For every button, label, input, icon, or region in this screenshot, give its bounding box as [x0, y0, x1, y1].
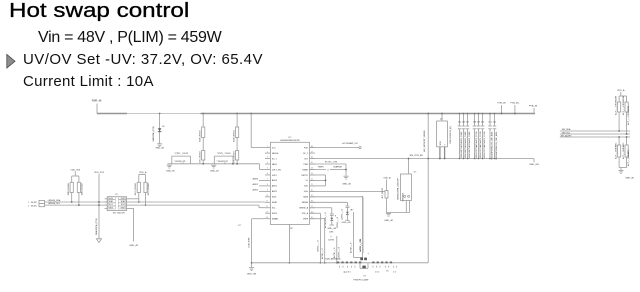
svg-text:C49: C49 [477, 122, 480, 124]
svg-text:1xTRX_+_S: 1xTRX_+_S [342, 208, 344, 220]
svg-text:SVDD: SVDD [272, 213, 278, 215]
svg-text:PVB_48: PVB_48 [497, 102, 506, 104]
svg-text:C51: C51 [488, 122, 491, 124]
svg-text:2: 2 [28, 206, 29, 208]
svg-text:UUD1H470MNL1GS_CAP_ALEL: UUD1H470MNL1GS_CAP_ALEL [490, 132, 493, 160]
svg-text:CWX: CWX [329, 231, 334, 233]
svg-text:GND_48: GND_48 [155, 147, 164, 149]
svg-text:7: 7 [267, 179, 268, 181]
svg-text:GRM31CR72A475KA73_C1206: GRM31CR72A475KA73_C1206 [475, 132, 478, 159]
svg-text:GND_48: GND_48 [129, 245, 138, 247]
svg-text:ADR2: ADR2 [272, 190, 277, 193]
svg-text:4K75_R0402: 4K75_R0402 [135, 182, 137, 195]
svg-text:+: + [367, 252, 369, 255]
svg-text:GND_GN: GND_GN [327, 228, 336, 230]
svg-text:SMBAY: SMBAY [272, 218, 279, 221]
svg-text:GND_48: GND_48 [342, 184, 351, 186]
svg-text:VAUX: VAUX [272, 163, 278, 166]
svg-text:48V_ALERT: 48V_ALERT [560, 135, 572, 138]
svg-text:U?: U? [414, 171, 417, 173]
svg-text:4: 4 [267, 162, 268, 164]
svg-text:LM5066PMMX/NOPB: LM5066PMMX/NOPB [280, 140, 300, 142]
svg-text:SDA2: SDA2 [121, 200, 125, 203]
svg-text:TD: TD [386, 271, 389, 273]
svg-text:SENSE_A: SENSE_A [299, 207, 308, 210]
svg-text:3: 3 [267, 157, 268, 159]
svg-text:NC_2: NC_2 [303, 153, 308, 155]
svg-text:VDD_A: VDD_A [302, 212, 309, 215]
svg-text:13: 13 [266, 211, 268, 213]
svg-text:GRM31CR72A475KA73_C1206: GRM31CR72A475KA73_C1206 [483, 132, 486, 159]
svg-text:UVLO: UVLO [272, 175, 278, 177]
svg-text:C52: C52 [493, 122, 496, 124]
svg-text:GND_48: GND_48 [210, 171, 219, 173]
svg-text:GND1: GND1 [109, 207, 114, 209]
svg-text:4K7_R0603: 4K7_R0603 [382, 187, 384, 198]
svg-text:GND_GN: GND_GN [342, 222, 351, 224]
svg-text:VGG: VGG [304, 191, 309, 193]
svg-text:VDD1: VDD1 [109, 198, 114, 200]
svg-text:9: 9 [267, 190, 268, 192]
svg-text:LM5066_SDA: LM5066_SDA [48, 199, 61, 202]
svg-text:LM5066_SCL: LM5066_SCL [48, 203, 61, 205]
svg-text:PGD: PGD [304, 147, 309, 149]
svg-text:SENSE: SENSE [302, 202, 309, 204]
svg-text:U?: U? [364, 276, 367, 278]
svg-text:10K0_R0402: 10K0_R0402 [82, 182, 84, 195]
svg-text:1 0 2: 1 0 2 [375, 271, 380, 273]
svg-text:CSD19536KCS_(N): CSD19536KCS_(N) [450, 126, 452, 144]
svg-text:U?: U? [115, 194, 119, 196]
svg-text:1: 1 [267, 146, 268, 148]
svg-text:48V_SCL: 48V_SCL [562, 132, 571, 134]
svg-text:10: 10 [266, 195, 268, 197]
svg-text:14: 14 [266, 217, 268, 219]
svg-text:COM_RTN: COM_RTN [249, 237, 251, 248]
svg-text:VDD_A: VDD_A [617, 89, 625, 92]
svg-text:*VTRY_ C2026: *VTRY_ C2026 [174, 153, 189, 155]
svg-text:14TRX_+_S: 14TRX_+_S [339, 246, 341, 258]
svg-text:2: 2 [440, 144, 441, 146]
svg-text:GND_48: GND_48 [625, 178, 634, 180]
svg-text:51K1_R0603: 51K1_R0603 [200, 150, 202, 163]
svg-text:C50: C50 [481, 122, 484, 124]
svg-text:48-I2C: 48-I2C [31, 206, 38, 208]
svg-text:GRM31CR72A475KA73_C1206: GRM31CR72A475KA73_C1206 [479, 132, 482, 159]
svg-text:ADR0: ADR0 [252, 178, 258, 181]
svg-text:TUA 1-BED6B03A: TUA 1-BED6B03A [325, 258, 341, 261]
svg-text:GND_GN: GND_GN [529, 164, 539, 166]
svg-text:SMBJ58A_(TVS): SMBJ58A_(TVS) [152, 126, 155, 142]
svg-text:( ): ( ) [330, 236, 332, 238]
svg-text:RETRY: RETRY [302, 175, 309, 177]
svg-text:SMAJ58CA_(TVS): SMAJ58CA_(TVS) [95, 218, 98, 235]
svg-text:1: 1 [28, 202, 29, 204]
svg-text:27: 27 [311, 151, 313, 153]
svg-text:ACT_+_NUM8RC: ACT_+_NUM8RC [622, 142, 625, 159]
svg-text:8: 8 [335, 216, 336, 218]
svg-text:14TRX: 14TRX [328, 239, 335, 241]
svg-text:VAUXH: VAUXH [272, 152, 279, 155]
svg-text:PWR: PWR [304, 164, 309, 166]
svg-text:4g 0 0 5: 4g 0 0 5 [343, 271, 351, 273]
svg-text:( ): ( ) [327, 169, 329, 171]
svg-text:SCL1: SCL1 [109, 204, 113, 206]
svg-text:PWM PD 12AXE: PWM PD 12AXE [353, 279, 369, 282]
svg-text:GND_GN: GND_GN [247, 274, 257, 276]
svg-text:12: 12 [266, 206, 268, 208]
svg-text:SCL2: SCL2 [121, 204, 125, 206]
svg-text:48V_RTN_SB: 48V_RTN_SB [409, 155, 423, 157]
svg-text:48V_MOSFET_SENSE: 48V_MOSFET_SENSE [424, 130, 426, 152]
svg-text:2: 2 [267, 151, 268, 153]
svg-text:GND_48: GND_48 [166, 171, 175, 173]
svg-text:ACT_+_NUM8RC: ACT_+_NUM8RC [627, 149, 630, 166]
svg-text:ISO 1540 DR: ISO 1540 DR [113, 213, 125, 215]
svg-text:C46: C46 [462, 122, 465, 124]
svg-text:8: 8 [267, 184, 268, 186]
svg-text:ACTM_+_S: ACTM_+_S [333, 247, 336, 258]
svg-text:604K_R0603: 604K_R0603 [200, 129, 202, 142]
svg-text:PVB_48: PVB_48 [529, 105, 538, 107]
svg-text:1xTRX_+_GW: 1xTRX_+_GW [360, 239, 362, 252]
svg-text:D?: D? [238, 225, 241, 227]
svg-text:11: 11 [266, 201, 268, 203]
svg-text:UVLO_EN: UVLO_EN [272, 169, 281, 171]
svg-text:C47: C47 [466, 122, 469, 124]
svg-text:VDD_3V3: VDD_3V3 [70, 169, 81, 171]
svg-text:VDD_A: VDD_A [139, 171, 147, 174]
svg-text:GND2: GND2 [120, 207, 125, 209]
svg-text:0 1: 0 1 [393, 271, 397, 273]
svg-text:ACT_+_47K/9R04W: ACT_+_47K/9R04W [615, 96, 618, 115]
svg-text:* 19K0912 NT: * 19K0912 NT [174, 161, 187, 163]
svg-text:SDA1: SDA1 [109, 200, 113, 203]
svg-text:GATE: GATE [303, 196, 309, 199]
svg-text:604K_R0603: 604K_R0603 [234, 129, 236, 142]
svg-text:10K0_R0402: 10K0_R0402 [68, 182, 70, 195]
svg-text:VCC: VCC [272, 147, 277, 149]
svg-text:ACT_+_47K/9R04W: ACT_+_47K/9R04W [627, 106, 630, 125]
svg-text:MMSZ5248B_(V)4700P: MMSZ5248B_(V)4700P [397, 178, 399, 200]
svg-text:51K1_R0603: 51K1_R0603 [234, 150, 236, 163]
svg-text:ADR0: ADR0 [272, 179, 277, 182]
svg-text:PVB_48_: PVB_48_ [510, 102, 520, 104]
svg-text:GND_48: GND_48 [384, 220, 393, 222]
svg-text:UL: UL [306, 180, 308, 182]
svg-text:ACTM_+_17: ACTM_+_17 [321, 247, 324, 259]
svg-text:NC_1: NC_1 [272, 158, 277, 160]
svg-text:*VTRY_ C2026: *VTRY_ C2026 [217, 153, 232, 155]
svg-text:SDAO: SDAO [272, 201, 278, 204]
svg-text:Z?: Z? [351, 210, 353, 212]
svg-text:Q?: Q? [440, 119, 443, 121]
svg-text:CRAFKKH: CRAFKKH [333, 166, 343, 169]
svg-text:ACTM_RTN_+_S: ACTM_RTN_+_S [324, 212, 327, 228]
svg-text:VDD2: VDD2 [121, 198, 126, 200]
svg-text:2: 2 [444, 144, 445, 146]
svg-text:ACTM_+_S: ACTM_+_S [350, 242, 353, 253]
svg-text:GRM188R72A105KA35_C0402: GRM188R72A105KA35_C0402 [464, 132, 467, 159]
svg-text:VDD_3V3: VDD_3V3 [94, 172, 105, 174]
svg-text:* 19K0912 NT: * 19K0912 NT [216, 161, 229, 163]
svg-text:14TRX_+_17: 14TRX_+_17 [318, 239, 320, 252]
svg-text:UUD1H470MNL1GS_CAP_ALEL: UUD1H470MNL1GS_CAP_ALEL [495, 132, 498, 160]
svg-text:VREF: VREF [303, 219, 309, 221]
svg-text:VDD: VDD [304, 186, 309, 188]
svg-text:TIMER: TIMER [302, 169, 309, 171]
svg-text:U?: U? [288, 137, 292, 139]
svg-text:5: 5 [267, 168, 268, 170]
svg-text:C45: C45 [458, 122, 461, 124]
svg-text:PWR_48: PWR_48 [92, 100, 102, 103]
svg-text:SCL: SCL [272, 208, 276, 210]
svg-text:HOTSWAP_OK: HOTSWAP_OK [342, 142, 358, 145]
svg-text:4K75_R0402: 4K75_R0402 [148, 182, 150, 195]
svg-text:ADR1: ADR1 [252, 183, 258, 186]
svg-text:C48: C48 [473, 122, 476, 124]
svg-text:EP: EP [290, 228, 293, 230]
svg-text:ADR1: ADR1 [272, 185, 277, 188]
svg-text:48V_SDA: 48V_SDA [562, 128, 571, 131]
svg-text:VDD_A: VDD_A [383, 176, 391, 179]
svg-text:ACT_+_NUM8RC: ACT_+_NUM8RC [615, 142, 618, 159]
svg-text:48-I2C: 48-I2C [31, 202, 38, 204]
svg-text:6: 6 [267, 173, 268, 175]
svg-text:RCTM +_D96: RCTM +_D96 [325, 161, 338, 163]
svg-text:GRM188R72A105KA35_C0402: GRM188R72A105KA35_C0402 [468, 132, 471, 159]
svg-text:14TRX_+_S: 14TRX_+_S [337, 216, 339, 228]
svg-text:ADR2: ADR2 [252, 188, 258, 191]
svg-text:GRM188R72A105KA35_C0402: GRM188R72A105KA35_C0402 [460, 132, 463, 159]
svg-text:D5: D5 [162, 126, 164, 128]
svg-text:TIMER: TIMER [318, 167, 325, 169]
svg-text:ACT_+_47K/9R04W: ACT_+_47K/9R04W [622, 96, 625, 115]
